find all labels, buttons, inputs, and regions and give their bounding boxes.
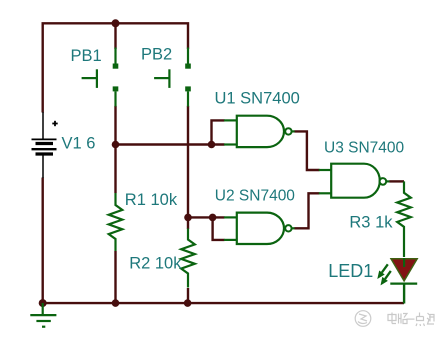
svg-text:PB2: PB2 [141,45,172,63]
svg-text:U1 SN7400: U1 SN7400 [215,90,300,108]
svg-text:R3 1k: R3 1k [349,214,393,232]
svg-text:LED1: LED1 [328,261,373,281]
svg-text:U2 SN7400: U2 SN7400 [215,187,296,204]
svg-text:R2 10k: R2 10k [129,255,182,273]
svg-text:PB1: PB1 [71,47,102,65]
svg-text:V1 6: V1 6 [62,135,96,153]
svg-text:U3 SN7400: U3 SN7400 [324,139,405,156]
svg-text:R1 10k: R1 10k [125,191,178,209]
